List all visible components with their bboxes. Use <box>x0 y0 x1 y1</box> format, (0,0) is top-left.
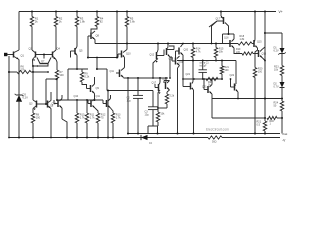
wire R10 top <box>76 100 78 113</box>
wire Q10b emitter to R12 <box>95 108 98 113</box>
node -V rail / R11 <box>86 136 88 138</box>
transistor Q11b <box>106 100 108 107</box>
svg-text:Q22: Q22 <box>230 74 235 77</box>
node x265 H1 <box>264 97 266 99</box>
capacitor C1 lead <box>202 61 204 70</box>
wire x255 from rail <box>254 12 256 40</box>
wire Q10 emitter link <box>124 58 126 68</box>
wire Q26 emitter down <box>255 48 258 68</box>
node x158 y108 <box>157 107 159 109</box>
resistor R12 <box>96 113 99 123</box>
svg-text:10k: 10k <box>219 50 224 53</box>
wire R24 to H2 <box>281 111 283 118</box>
node base bus / R7 <box>56 99 58 101</box>
node bus3 / Q19m <box>169 77 171 79</box>
node top rail / wire x117 <box>116 10 118 12</box>
wire Q18m emitter down <box>153 61 155 78</box>
transistor Q20c <box>178 48 180 55</box>
node -V rail / R12 <box>97 136 99 138</box>
node bus2 left <box>87 56 89 58</box>
wire right col top <box>281 33 283 48</box>
wire Q1 emitter down to D3 <box>18 60 20 96</box>
node -V rail / input column <box>8 137 10 139</box>
wire Q19m emitter down <box>169 57 171 78</box>
wire R21 to out bus <box>264 131 266 134</box>
transistor Q10b <box>90 100 92 107</box>
wire x97 down <box>96 58 98 70</box>
transistor Q27 <box>258 50 260 57</box>
wire box2 top <box>68 68 88 70</box>
svg-text:27k: 27k <box>21 68 26 72</box>
svg-text:Q11: Q11 <box>110 70 115 73</box>
svg-text:1.7k: 1.7k <box>80 116 85 119</box>
svg-text:100: 100 <box>225 69 230 72</box>
wire x108 column <box>107 91 109 138</box>
wire Q5 base stub <box>70 51 72 58</box>
wire x160 stub <box>159 78 161 82</box>
svg-text:Q7: Q7 <box>41 60 45 63</box>
transistor Q3 <box>36 101 38 108</box>
wire x128 column to out bus <box>127 78 129 134</box>
svg-text:2.2k: 2.2k <box>170 95 175 98</box>
resistor R17 series <box>206 77 218 80</box>
node -V rail / R8 <box>32 136 34 138</box>
transistor Q23 <box>234 84 236 91</box>
wire bus2 <box>88 57 118 59</box>
wire rail to bus2 <box>116 12 118 58</box>
node y60/x193 <box>192 59 194 61</box>
resistor R15 <box>214 48 217 58</box>
node base bus / R10 <box>76 99 78 101</box>
svg-text:-V: -V <box>282 138 286 142</box>
svg-text:2.2k: 2.2k <box>85 75 90 78</box>
transistor Q8 <box>90 33 92 40</box>
wire Q11b emitter to R13 <box>111 108 114 113</box>
wire Q27 emitter join <box>263 58 266 61</box>
node bus3/C2 <box>137 77 139 79</box>
svg-text:75: 75 <box>101 116 104 119</box>
wire Q29 emitter to R15b <box>167 90 170 92</box>
capacitor C3 lead top <box>152 91 154 107</box>
transistor Q19m diode-connected <box>166 48 168 55</box>
transistor Q22 <box>207 86 209 93</box>
node bus / Q19m <box>167 42 169 44</box>
svg-text:Q3: Q3 <box>29 103 33 106</box>
wire H2 bus <box>212 117 264 119</box>
wire R23 to D2 <box>281 76 283 83</box>
wire notch left <box>147 126 149 134</box>
node bus3 left end <box>152 77 154 79</box>
svg-text:1.7k: 1.7k <box>116 116 121 119</box>
transistor Q5 <box>74 48 76 54</box>
wire Q20c emitter down <box>182 55 184 61</box>
wire x183 column <box>182 61 184 87</box>
wire Q2 emitter down <box>32 60 34 67</box>
node out bus x128 <box>127 132 129 134</box>
svg-text:Q5: Q5 <box>79 49 83 53</box>
svg-text:10µ: 10µ <box>145 113 150 116</box>
transistor Q7 multicollector <box>37 58 40 64</box>
wire Q14 emitter down <box>50 109 52 138</box>
resistor R3 <box>75 17 78 27</box>
resistor R8 <box>31 113 34 123</box>
wire Q24 base column <box>212 21 218 44</box>
svg-text:0.5: 0.5 <box>257 123 261 126</box>
wire box2 left <box>67 69 69 100</box>
wire D1 to R23 <box>281 54 283 66</box>
node bus/R5 <box>126 42 128 44</box>
capacitor C2 lead <box>137 78 139 95</box>
transistor Q2 <box>35 52 37 58</box>
wire loop to Q25 <box>229 33 235 35</box>
svg-text:Q10: Q10 <box>126 53 131 56</box>
wire left rail corner down <box>18 12 20 51</box>
node out bus x177 <box>176 132 178 134</box>
svg-text:50: 50 <box>274 104 277 107</box>
node y79 / C1 <box>202 78 204 80</box>
node right col H1 <box>281 97 283 99</box>
resistor R14 <box>191 48 194 58</box>
node R6 right <box>32 71 34 73</box>
node -V rail / R13 <box>112 136 114 138</box>
svg-text:Q16: Q16 <box>262 53 267 56</box>
svg-text:Q15: Q15 <box>257 41 262 44</box>
wire base join <box>38 103 46 105</box>
svg-text:Q1: Q1 <box>21 54 25 58</box>
wire R9 to Q9 base <box>82 82 87 89</box>
svg-text:ElecCircuit.com: ElecCircuit.com <box>206 128 229 132</box>
wire y79 bus <box>183 78 222 80</box>
wire R11 top <box>86 100 88 113</box>
wire x265 column <box>264 12 266 122</box>
wire Q8 collector to bus <box>94 40 96 44</box>
node x228 y34 <box>227 33 229 35</box>
node inverting input terminal <box>4 53 7 56</box>
svg-text:Q17: Q17 <box>216 19 221 21</box>
node bus / Q18m <box>157 42 159 44</box>
transistor Q29 <box>165 82 167 89</box>
transistor Q10 <box>121 51 123 58</box>
zener D3 <box>16 95 22 102</box>
wire collector loop <box>223 33 229 35</box>
svg-text:3.6k: 3.6k <box>130 20 136 24</box>
wire L column x212 <box>211 99 213 119</box>
node top rail / R5 <box>126 10 128 12</box>
node top rail / R4 <box>96 10 98 12</box>
node Q5/box junction <box>76 68 78 70</box>
resistor R6 <box>17 70 31 73</box>
wire Q5 emitter down <box>76 56 78 70</box>
wire Q27 collector join <box>263 47 266 49</box>
node out bus x255 <box>254 132 256 134</box>
node top rail / R3 <box>76 10 78 12</box>
node y60/x183 <box>182 60 184 62</box>
wire Q14 collector up <box>50 92 52 101</box>
wire y60 right column <box>235 61 237 85</box>
transistor Q18m <box>156 52 158 59</box>
node bus / R15 <box>215 42 217 44</box>
wire Q7 emitter to R6 node <box>33 64 48 67</box>
wire +V top supply rail <box>19 11 276 13</box>
wire Q23 emitter stub <box>237 92 239 99</box>
wire R15b bottom <box>166 104 168 108</box>
svg-text:6.2V: 6.2V <box>23 96 29 100</box>
wire C1 bottom lead <box>202 72 204 79</box>
svg-text:Q21: Q21 <box>186 73 191 76</box>
transistor Q4 <box>52 52 54 58</box>
transistor Q28 <box>158 84 160 91</box>
resistor R7 <box>55 70 58 80</box>
svg-text:1.7k: 1.7k <box>90 116 95 119</box>
svg-text:Q21: Q21 <box>202 86 207 89</box>
svg-text:Q18: Q18 <box>224 38 229 40</box>
node bus / x211 <box>211 43 213 45</box>
wire Q3 emitter to R8 <box>32 109 34 114</box>
node -V rail x51 <box>50 137 52 139</box>
capacitor C1 <box>199 69 207 71</box>
node base join / box col <box>45 103 47 105</box>
wire join y108 <box>158 107 167 109</box>
wire R16 down <box>221 74 223 79</box>
wire x255 to out bus <box>254 78 256 134</box>
resistor R11 <box>85 113 88 123</box>
svg-text:100: 100 <box>258 70 263 73</box>
wire x107 down <box>106 69 108 91</box>
resistor R13 <box>111 113 114 123</box>
node y60 / R16 <box>221 59 223 61</box>
node out bus x265 <box>264 132 266 134</box>
wire Q21c base stub <box>171 57 173 61</box>
svg-text:82: 82 <box>100 20 103 24</box>
node top rail x265 <box>264 10 266 12</box>
node bus3 right <box>159 77 161 79</box>
svg-text:4.7k: 4.7k <box>196 50 201 53</box>
svg-text:50Ω: 50Ω <box>212 140 217 143</box>
resistor R23 <box>280 66 283 76</box>
wire Q8b emitter down <box>61 108 63 119</box>
svg-text:100: 100 <box>60 74 65 77</box>
resistor R24 <box>280 101 283 111</box>
wire right col to out bus <box>281 118 283 134</box>
svg-text:220: 220 <box>236 51 241 54</box>
node -V rail x108 <box>107 136 109 138</box>
node top rail / R1 <box>31 10 33 12</box>
node right col H2 <box>281 117 283 119</box>
transistor Q14 <box>47 101 49 108</box>
node y79 left <box>182 78 184 80</box>
svg-text:Q2: Q2 <box>29 47 33 51</box>
wire R7 to base bus <box>56 80 58 100</box>
node -V rail / D3 column <box>18 136 20 138</box>
wire Q24 collector <box>225 23 229 35</box>
resistor R1 <box>30 17 33 27</box>
node top rail / Q24 <box>220 10 222 12</box>
node bus3 / x128 col <box>127 77 129 79</box>
svg-text:1.8k: 1.8k <box>240 38 245 41</box>
svg-text:10µ: 10µ <box>127 99 132 102</box>
resistor R15b <box>165 94 168 104</box>
wire Q21c emitter col <box>178 66 180 69</box>
node bus / R14 <box>192 42 194 44</box>
node y90 / x108 <box>107 90 109 92</box>
wire mirror base link <box>161 55 164 57</box>
capacitor C3 <box>148 106 158 108</box>
node -V rail / R10 <box>76 136 78 138</box>
wire Q8 base down <box>87 36 89 58</box>
resistor R4 <box>95 17 98 27</box>
node Q2 emitter col <box>32 65 34 67</box>
wire R14 down to y79 <box>192 58 194 80</box>
wire y60 bus <box>177 60 236 62</box>
wire R15 to y60 bus <box>215 58 217 61</box>
node y79 / x194 <box>193 78 195 80</box>
wire x265 to right col <box>265 32 282 34</box>
resistor R19 <box>242 52 253 55</box>
svg-text:100: 100 <box>36 116 41 119</box>
node y60 / C1 <box>202 60 204 62</box>
resistor R16b <box>156 112 159 122</box>
capacitor C2 <box>133 94 143 96</box>
svg-text:Q20: Q20 <box>184 49 189 52</box>
svg-text:Q10: Q10 <box>74 95 79 98</box>
node x265 y33 <box>264 32 266 34</box>
transistor Q9 <box>90 85 92 92</box>
wire box left column <box>45 79 47 104</box>
svg-text:Q8: Q8 <box>96 34 100 38</box>
node out bus / notch <box>156 132 158 134</box>
zener D1 <box>280 48 285 54</box>
resistor R16 <box>220 66 223 74</box>
svg-text:Q12: Q12 <box>150 54 155 57</box>
svg-text:10k: 10k <box>161 113 166 116</box>
svg-text:comp C1: comp C1 <box>200 62 210 64</box>
resistor R18 series bus <box>238 42 252 45</box>
diode D2 <box>280 82 285 88</box>
svg-text:Q11: Q11 <box>96 95 101 98</box>
transistor Q21c <box>175 58 177 65</box>
node -V rail x67 <box>66 136 68 138</box>
wire -V bottom supply rail <box>9 137 208 139</box>
node Q7 base tap <box>47 71 49 73</box>
wire box top <box>46 78 57 80</box>
node base bus / Q9 emitter <box>94 99 96 101</box>
wire C3 bottom lead <box>152 110 154 126</box>
transistor Q30 <box>190 83 192 90</box>
wire input column down <box>8 56 10 138</box>
node out bus / C2 <box>137 132 139 134</box>
transistor Q25 <box>229 40 231 47</box>
wire notch right <box>157 126 159 134</box>
wire H1 bus <box>212 98 282 100</box>
wire Q22 emitter to H1 <box>211 94 213 99</box>
wire y69 link <box>97 68 107 70</box>
svg-text:0.7V: 0.7V <box>274 85 279 88</box>
wire x33 column mid <box>32 72 34 100</box>
svg-text:Q9: Q9 <box>96 87 100 90</box>
node R6 left / input column <box>8 71 10 73</box>
wire D2 to H1 <box>281 88 283 99</box>
svg-text:int 1µF: int 1µF <box>200 65 208 68</box>
wire Q25 emitter <box>234 48 242 54</box>
svg-text:10k: 10k <box>274 68 279 71</box>
wire R22 to right col <box>277 117 282 119</box>
node top rail / R2 <box>55 10 57 12</box>
svg-text:Vout: Vout <box>282 132 288 136</box>
svg-text:1.8k: 1.8k <box>80 20 86 24</box>
resistor R9 <box>80 72 83 82</box>
wire Q9 emitter down <box>94 94 96 101</box>
wire C2 bottom lead <box>137 98 139 133</box>
wire Q2-Q4 base bus <box>37 54 51 56</box>
resistor R5 <box>125 17 128 27</box>
svg-text:6.2V: 6.2V <box>274 49 279 52</box>
resistor R2 <box>54 17 57 27</box>
resistor R20 <box>253 68 256 78</box>
wire Q4 emitter to R7 <box>56 60 57 71</box>
resistor R10 <box>75 113 78 123</box>
wire output bus <box>128 133 280 135</box>
wire main bus A <box>95 43 238 45</box>
node x97 y69 <box>96 68 98 70</box>
transistor Q8b <box>57 100 59 107</box>
wire notch top <box>148 125 158 127</box>
transistor Q1 <box>13 52 15 58</box>
diode D4 <box>141 135 148 140</box>
svg-text:Q4: Q4 <box>57 47 61 51</box>
resistor R21 <box>263 121 266 131</box>
node base bus / R11 <box>86 99 88 101</box>
transistor Q11 <box>119 70 121 78</box>
resistor R27 series in -V rail <box>208 136 222 139</box>
svg-text:D4: D4 <box>149 142 153 145</box>
svg-text:Q13: Q13 <box>169 58 174 61</box>
node out bus / R14 <box>192 132 194 134</box>
svg-text:V+: V+ <box>279 10 283 14</box>
node top rail x255 <box>254 10 256 12</box>
node base bus center <box>43 53 45 55</box>
svg-text:Q18: Q18 <box>162 78 167 81</box>
resistor R22 series <box>267 116 277 119</box>
node x265 H2 <box>264 117 266 119</box>
node bus2 / x117 <box>116 56 118 58</box>
wire base bus y100 <box>57 99 103 101</box>
svg-text:1: 1 <box>270 123 272 126</box>
wire y90 bus <box>107 90 153 92</box>
transistor Q26 <box>253 40 255 47</box>
wire Q28 emitter down <box>157 93 159 109</box>
transistor Q24 <box>220 12 222 17</box>
wire R4 to Q8 <box>91 27 97 33</box>
wire bus3 <box>124 77 169 79</box>
wire Q30 emitter to out bus <box>193 90 195 134</box>
svg-text:Q17: Q17 <box>152 82 157 85</box>
